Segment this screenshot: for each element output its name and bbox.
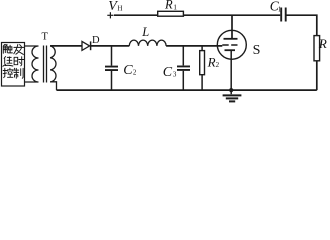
svg-text:1: 1	[278, 5, 282, 13]
svg-text:H: H	[117, 4, 122, 12]
svg-text:2: 2	[216, 61, 220, 69]
svg-text:D: D	[92, 35, 100, 46]
svg-text:C: C	[163, 65, 173, 80]
svg-text:R: R	[318, 36, 327, 51]
svg-text:R: R	[207, 54, 216, 69]
svg-text:3: 3	[173, 71, 177, 79]
svg-text:T: T	[42, 32, 49, 43]
svg-text:S: S	[253, 43, 261, 58]
svg-text:2: 2	[133, 69, 137, 77]
svg-text:R: R	[164, 0, 173, 12]
svg-text:L: L	[141, 25, 149, 39]
svg-text:C: C	[123, 63, 133, 78]
svg-text:1: 1	[173, 3, 177, 12]
